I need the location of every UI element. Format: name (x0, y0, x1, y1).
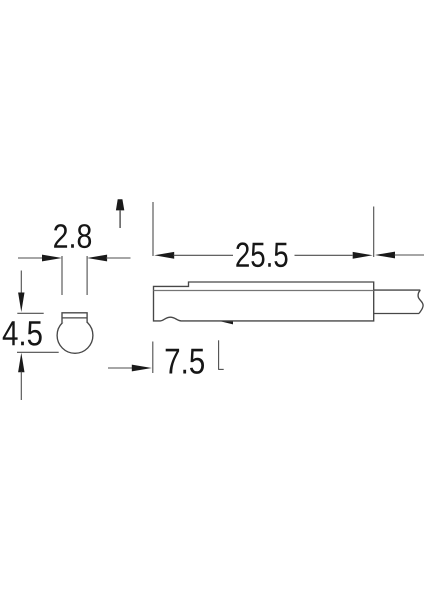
body inner parting line (154, 290, 374, 292)
dimension 7.5 left extension line (152, 342, 154, 374)
dimension 4.5 bottom arrow (up) (17, 352, 59, 400)
dimension 2.8 extension lines (62, 256, 87, 295)
dimension 7.5 half arrow on body bottom edge (points left) (219, 321, 233, 325)
dimension 25.5 left arrow (154, 252, 233, 259)
ball contact tip circle (57, 318, 93, 354)
dimension 4.5 top arrow (down) (17, 271, 43, 314)
dimension 4.5 label (3, 321, 42, 345)
dimension 25.5 extension lines (153, 202, 374, 257)
dimension 25.5 label (236, 242, 287, 267)
dimension 2.8 right arrow (87, 255, 130, 262)
outer dimension arrow at cable (points left) (375, 252, 424, 259)
ball tip stem cap (62, 313, 87, 323)
dimension 25.5 right arrow (295, 252, 373, 259)
cable with break line (374, 290, 423, 313)
direction arrow (actuation direction, up) (116, 199, 124, 228)
dimension 2.8 label (54, 224, 91, 248)
dimension 2.8 left arrow (18, 255, 62, 262)
dimension 7.5 arrow (points right) (108, 365, 152, 372)
dimension 7.5 label (166, 349, 204, 374)
sensor body outline (154, 282, 374, 321)
dimension 7.5 right extension line with foot (219, 340, 224, 370)
